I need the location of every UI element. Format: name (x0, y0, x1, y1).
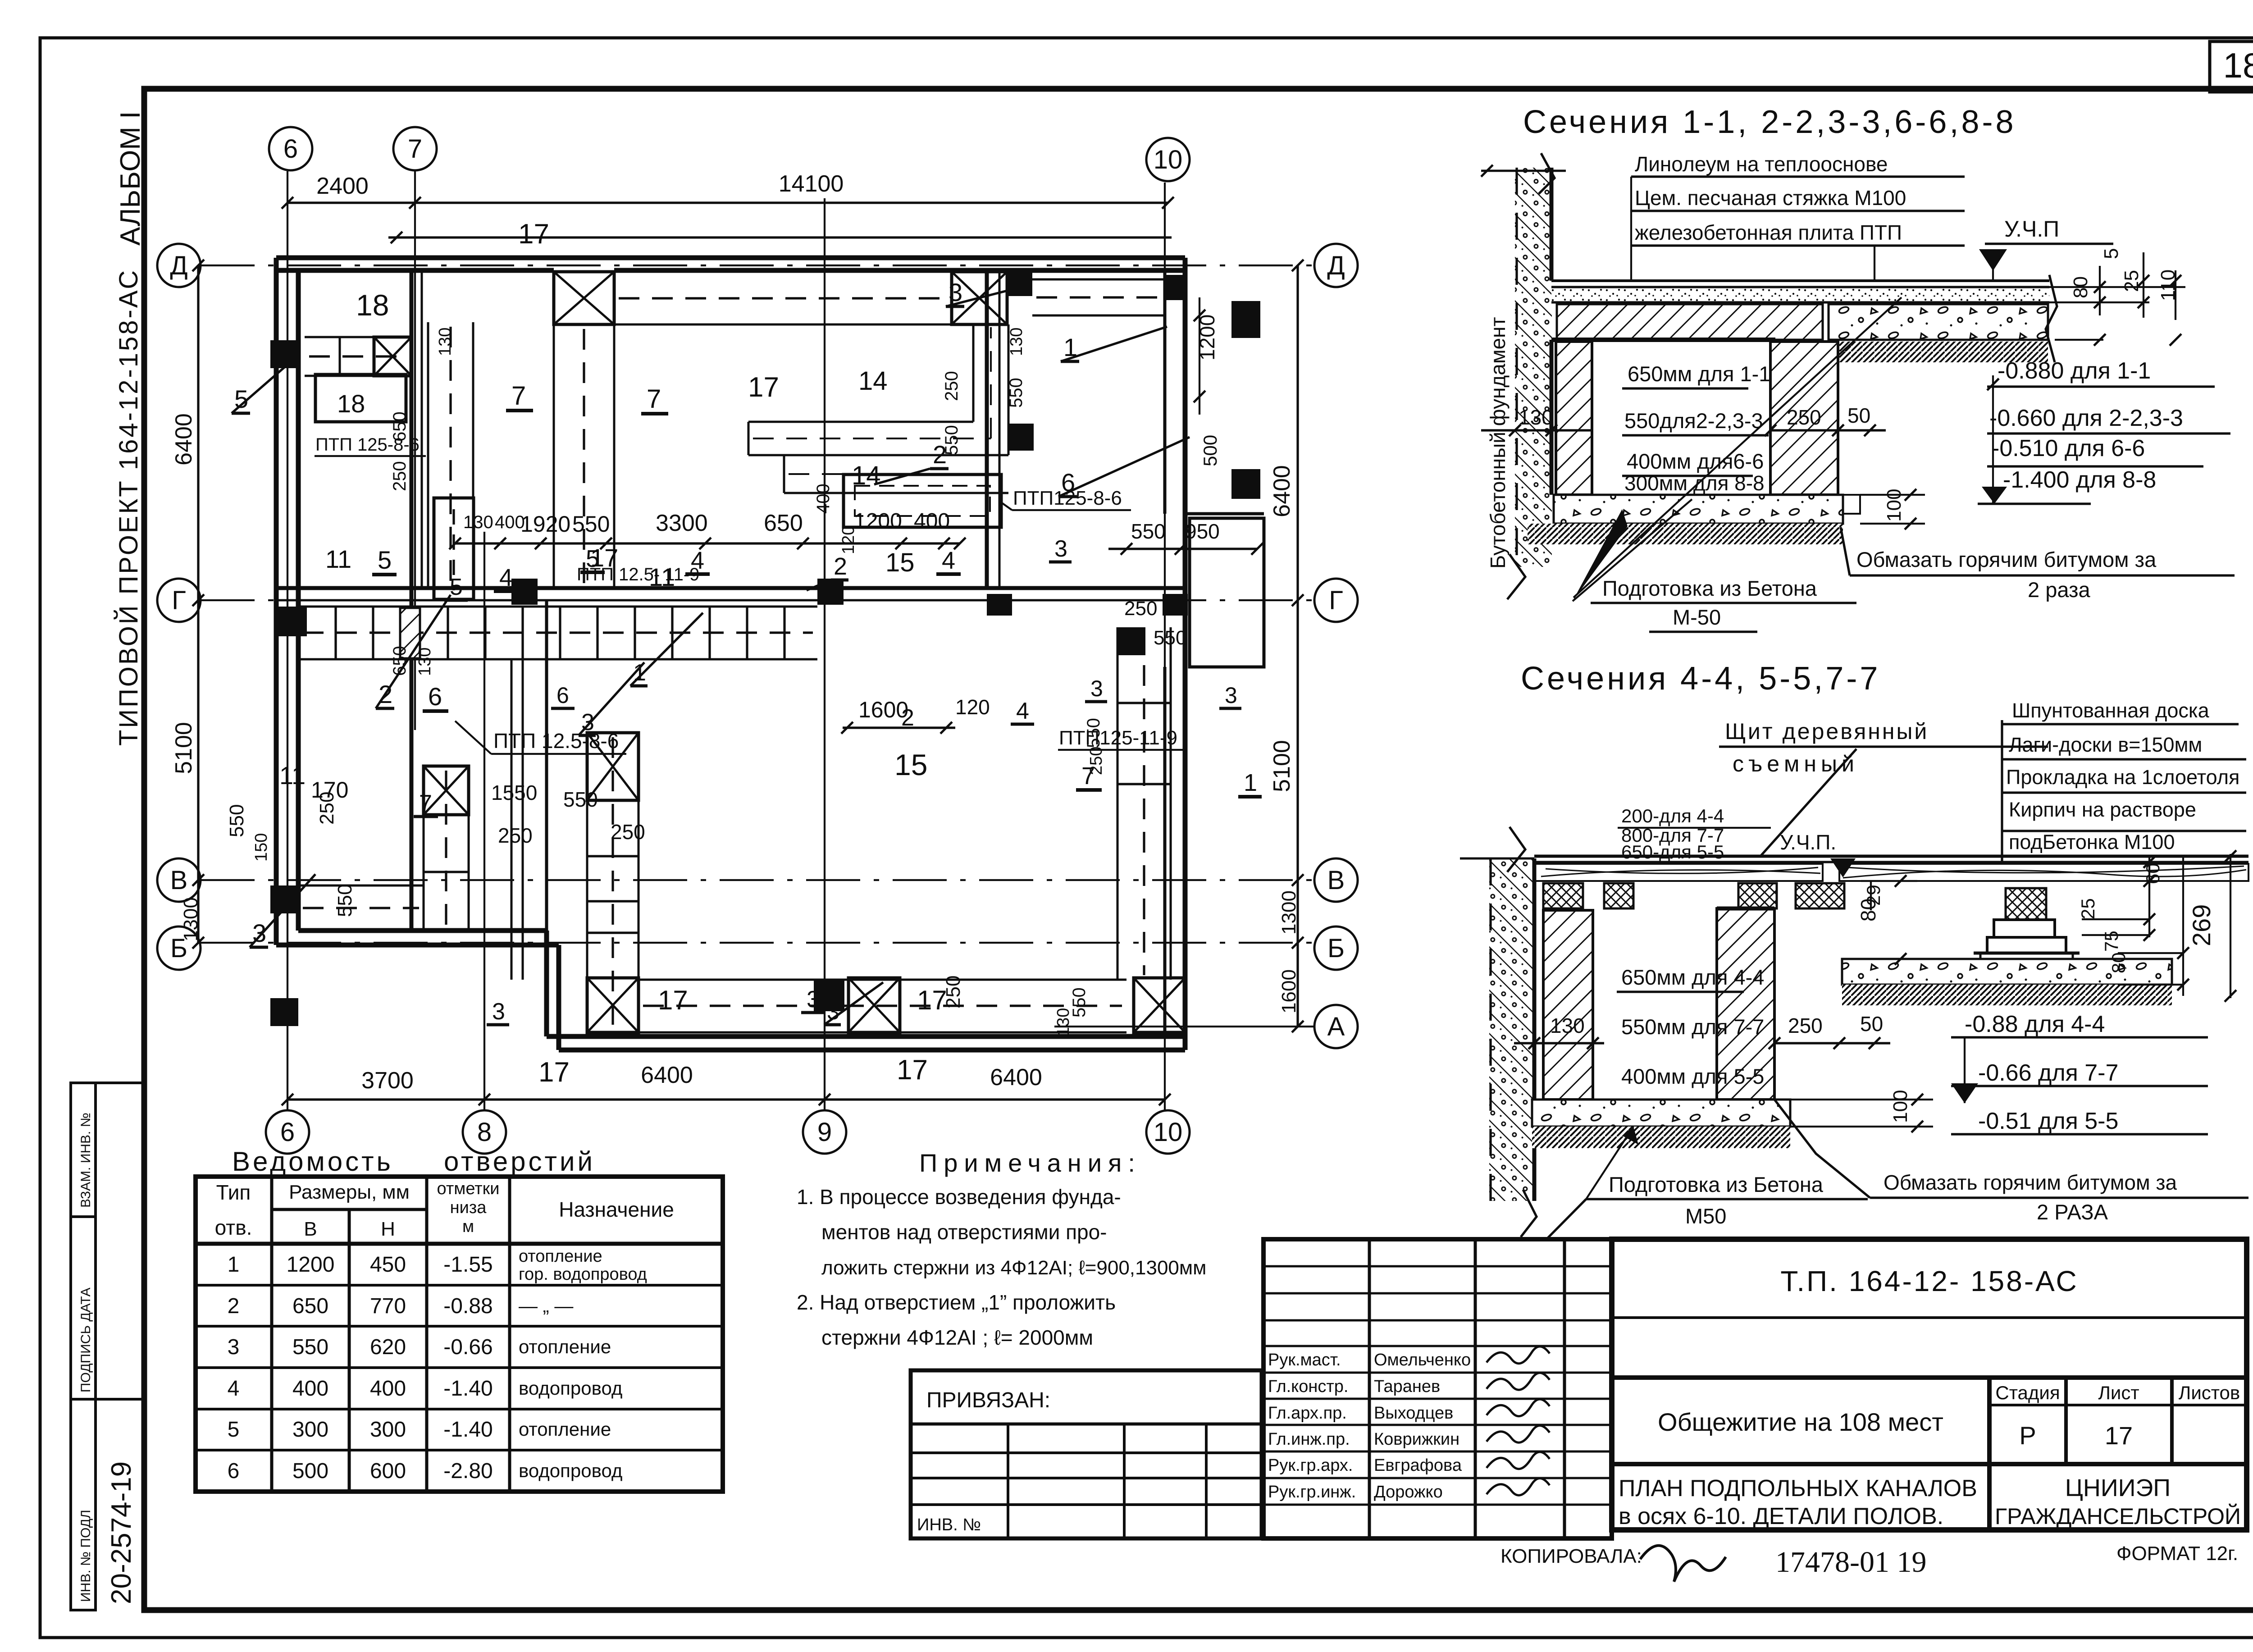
svg-text:25: 25 (2077, 898, 2098, 919)
L channel around room 4 (748, 421, 973, 423)
svg-text:1600: 1600 (1278, 969, 1300, 1013)
section 2 podbetonka band right (1842, 959, 2172, 985)
svg-text:ТИПОВОЙ ПРОЕКТ 164-12-158-АС: ТИПОВОЙ ПРОЕКТ 164-12-158-АС (114, 269, 143, 746)
svg-text:550: 550 (1006, 378, 1026, 408)
privyazan box (911, 1370, 1262, 1538)
svg-text:4: 4 (228, 1377, 240, 1401)
svg-text:ВЗАМ. ИНВ. №: ВЗАМ. ИНВ. № (78, 1113, 93, 1208)
svg-text:Назначение: Назначение (559, 1198, 674, 1221)
svg-text:250: 250 (942, 371, 962, 401)
svg-text:300: 300 (292, 1418, 328, 1442)
svg-text:950: 950 (1185, 520, 1220, 543)
svg-text:Г: Г (1329, 586, 1343, 615)
svg-text:низа: низа (450, 1198, 487, 1217)
svg-text:5: 5 (2100, 248, 2122, 259)
svg-text:ПТП125-11-9: ПТП125-11-9 (1059, 727, 1177, 749)
section 2 brick pier right (2006, 888, 2046, 920)
svg-text:Таранев: Таранев (1374, 1377, 1440, 1396)
outer wall bottom right part (559, 1048, 1185, 1053)
svg-text:У.Ч.П.: У.Ч.П. (1780, 831, 1836, 854)
svg-text:железобетонная плита ПТП: железобетонная плита ПТП (1635, 221, 1902, 244)
svg-text:-0.51 для 5-5: -0.51 для 5-5 (1978, 1108, 2118, 1134)
svg-text:550: 550 (334, 884, 356, 917)
section 1 foundation wall (1515, 168, 1552, 567)
svg-text:стержни 4Ф12АІ ; ℓ= 2000мм: стержни 4Ф12АІ ; ℓ= 2000мм (821, 1326, 1093, 1349)
channel top-left with crossed box (305, 336, 411, 338)
axis circle 10 bottom (1146, 1110, 1190, 1154)
svg-text:3: 3 (1090, 676, 1103, 701)
axis circle A right (1314, 1005, 1358, 1048)
svg-text:2 раза: 2 раза (2028, 578, 2090, 602)
svg-text:6: 6 (556, 683, 569, 708)
svg-text:250: 250 (1787, 406, 1821, 429)
svg-text:80: 80 (1856, 899, 1880, 922)
svg-text:гор. водопровод: гор. водопровод (519, 1265, 647, 1284)
svg-text:550: 550 (563, 788, 598, 811)
channel vertical V1 (427, 322, 429, 588)
plan axis line 9 (824, 198, 825, 1111)
axis circle 9 bottom (803, 1110, 846, 1154)
svg-text:17: 17 (518, 219, 549, 250)
channel vertical right x~2500 (1117, 627, 1119, 980)
svg-text:м: м (462, 1217, 474, 1236)
svg-text:1300: 1300 (1278, 890, 1300, 935)
svg-text:150: 150 (252, 833, 271, 862)
svg-text:ПРИВЯЗАН:: ПРИВЯЗАН: (926, 1388, 1050, 1412)
svg-text:5: 5 (228, 1418, 240, 1442)
right protruding bay (1190, 518, 1264, 667)
section 2 right label table (2001, 720, 2003, 862)
left margin stamp strip (71, 1083, 96, 1610)
svg-text:7: 7 (511, 381, 526, 411)
channel left-bottom vertical (423, 766, 425, 931)
outer wall left (274, 258, 279, 945)
svg-text:ПТП 12.5-8-6: ПТП 12.5-8-6 (493, 729, 619, 753)
svg-text:250: 250 (316, 792, 338, 825)
svg-text:17: 17 (2105, 1421, 2133, 1450)
svg-text:500: 500 (1199, 435, 1221, 466)
section 1 floor slab top lines (1551, 279, 2049, 282)
svg-text:17: 17 (658, 985, 688, 1015)
svg-text:18: 18 (337, 389, 365, 418)
section 1 dim 100 (1860, 494, 1925, 496)
svg-text:400: 400 (813, 484, 833, 514)
section 2 foundation wall (1489, 858, 1534, 1201)
svg-text:650: 650 (292, 1294, 328, 1318)
svg-text:550: 550 (1154, 627, 1186, 649)
svg-text:Гл.арх.пр.: Гл.арх.пр. (1268, 1404, 1347, 1423)
svg-text:Рук.гр.арх.: Рук.гр.арх. (1268, 1456, 1353, 1475)
svg-text:4: 4 (499, 564, 513, 591)
svg-text:-0.66 для 7-7: -0.66 для 7-7 (1978, 1060, 2118, 1086)
axis circle G right (1314, 579, 1358, 622)
svg-text:КОПИРОВАЛА:: КОПИРОВАЛА: (1500, 1545, 1642, 1567)
svg-text:100: 100 (1883, 489, 1905, 522)
svg-text:130: 130 (1054, 1008, 1073, 1036)
outer wall bottom left part along B (276, 943, 559, 948)
svg-text:550: 550 (1131, 520, 1166, 543)
svg-text:Коврижкин: Коврижкин (1374, 1430, 1459, 1449)
svg-text:650: 650 (390, 411, 410, 442)
svg-text:Размеры, мм: Размеры, мм (289, 1181, 410, 1203)
section 1 podbetonka concrete band (1829, 304, 2048, 340)
svg-text:Б: Б (1327, 934, 1345, 963)
svg-text:отверстий: отверстий (444, 1146, 595, 1177)
plan axis line 7 (414, 171, 416, 730)
svg-text:1: 1 (1244, 769, 1257, 796)
svg-text:Лаги-доски в=150мм: Лаги-доски в=150мм (2009, 733, 2202, 756)
svg-text:отметки: отметки (437, 1179, 500, 1198)
interior wall x~1213 G to bottom (545, 600, 548, 931)
svg-text:620: 620 (370, 1335, 406, 1359)
svg-text:5100: 5100 (1269, 740, 1295, 792)
svg-text:130: 130 (415, 648, 434, 676)
svg-text:Общежитие на 108 мест: Общежитие на 108 мест (1658, 1408, 1943, 1436)
svg-text:Р: Р (2019, 1421, 2036, 1450)
svg-text:ментов над отверстиями про-: ментов над отверстиями про- (821, 1220, 1107, 1244)
svg-text:в осях 6-10. ДЕТАЛИ ПОЛОВ.: в осях 6-10. ДЕТАЛИ ПОЛОВ. (1619, 1503, 1943, 1529)
svg-text:250: 250 (1788, 1014, 1823, 1037)
svg-text:550: 550 (942, 425, 962, 455)
svg-text:-0.880 для 1-1: -0.880 для 1-1 (1998, 358, 2151, 384)
svg-text:Рук.маст.: Рук.маст. (1268, 1351, 1341, 1369)
axis circle 8 bottom (463, 1110, 506, 1154)
svg-text:Бутобетонный фундамент: Бутобетонный фундамент (1486, 317, 1510, 569)
section 2 pit right wall (1717, 908, 1774, 1100)
svg-text:4: 4 (942, 547, 955, 574)
svg-text:3: 3 (492, 999, 505, 1025)
svg-text:18: 18 (356, 288, 389, 322)
svg-text:550: 550 (226, 804, 248, 837)
svg-text:550: 550 (292, 1335, 328, 1359)
svg-text:11: 11 (325, 545, 351, 573)
channel ring bottom horizontal (639, 979, 1126, 981)
schedule table (196, 1177, 723, 1492)
svg-text:15: 15 (894, 748, 927, 781)
svg-text:15: 15 (885, 548, 915, 577)
svg-text:Ведомость: Ведомость (232, 1146, 393, 1177)
svg-text:подБетонка М100: подБетонка М100 (2009, 831, 2175, 853)
svg-text:500: 500 (292, 1459, 328, 1483)
svg-text:-0.660 для 2-2,3-3: -0.660 для 2-2,3-3 (1989, 405, 2183, 431)
svg-text:В: В (304, 1218, 317, 1240)
bottom dimension line (287, 1098, 1165, 1100)
svg-text:Щит деревянный: Щит деревянный (1725, 719, 1929, 744)
plan axis line V (201, 879, 1314, 881)
section 1 cross leader (1573, 297, 1902, 598)
svg-text:отопление: отопление (519, 1336, 611, 1357)
svg-text:130: 130 (436, 328, 455, 356)
axis circle B left (157, 926, 201, 970)
ladder channel below G (298, 606, 817, 608)
svg-text:1920: 1920 (520, 511, 570, 537)
svg-text:Линолеум на теплооснове: Линолеум на теплооснове (1635, 152, 1888, 176)
section 2 wood blocks under floor (1543, 883, 1583, 908)
svg-text:Листов: Листов (2179, 1382, 2240, 1403)
svg-text:550мм для 7-7: 550мм для 7-7 (1621, 1015, 1764, 1039)
svg-text:Подготовка из Бетона: Подготовка из Бетона (1602, 576, 1817, 600)
svg-text:У.Ч.П: У.Ч.П (2004, 216, 2059, 242)
svg-text:400мм для6-6: 400мм для6-6 (1627, 449, 1764, 473)
svg-text:А: А (1327, 1012, 1345, 1041)
axis circle B right (1314, 926, 1358, 970)
svg-text:3700: 3700 (361, 1068, 414, 1094)
svg-text:Д: Д (1327, 251, 1345, 280)
channel vertical V2 below crossed box (553, 324, 555, 588)
svg-text:50: 50 (1847, 404, 1870, 427)
outer wall step vertical (556, 945, 561, 1050)
outer wall top along D (276, 256, 1185, 260)
svg-text:отопление: отопление (519, 1247, 602, 1266)
svg-text:14: 14 (858, 366, 888, 396)
svg-text:5: 5 (450, 574, 463, 600)
section 1 ground line top (1481, 170, 1566, 172)
svg-text:Г: Г (172, 586, 186, 615)
svg-text:650-для 5-5: 650-для 5-5 (1621, 841, 1724, 863)
svg-text:Тип: Тип (216, 1181, 251, 1204)
svg-text:600: 600 (370, 1459, 406, 1483)
svg-text:-2.80: -2.80 (443, 1459, 493, 1483)
svg-text:3: 3 (807, 986, 820, 1013)
interior wall x~920 (410, 270, 414, 931)
hatched block in ladder channel (400, 608, 420, 658)
interior wall along G (276, 586, 1185, 590)
svg-text:6400: 6400 (990, 1064, 1042, 1091)
svg-text:Т.П. 164-12- 158-АС: Т.П. 164-12- 158-АС (1780, 1265, 2078, 1297)
svg-text:650: 650 (764, 510, 803, 536)
svg-text:6: 6 (428, 682, 442, 711)
signature table (1263, 1239, 1612, 1538)
svg-text:14: 14 (852, 461, 881, 490)
svg-text:450: 450 (370, 1253, 406, 1277)
section 2 pit left wall (1543, 910, 1593, 1100)
svg-text:Рук.гр.инж.: Рук.гр.инж. (1268, 1483, 1356, 1501)
svg-text:17478-01 19: 17478-01 19 (1775, 1546, 1926, 1579)
axis circle D right (1314, 244, 1358, 287)
svg-text:80: 80 (2070, 276, 2092, 298)
svg-text:— „ —: — „ — (519, 1295, 573, 1316)
svg-text:-1.40: -1.40 (443, 1377, 493, 1401)
svg-text:3: 3 (1054, 536, 1067, 562)
svg-text:-1.55: -1.55 (443, 1253, 493, 1277)
svg-text:-0.510 для 6-6: -0.510 для 6-6 (1992, 435, 2145, 461)
svg-text:2: 2 (901, 705, 914, 731)
svg-text:17: 17 (538, 1057, 570, 1088)
svg-text:17: 17 (748, 372, 779, 403)
svg-text:М-50: М-50 (1673, 605, 1721, 629)
svg-text:Д: Д (170, 251, 187, 280)
svg-text:2400: 2400 (316, 173, 369, 199)
svg-text:550для2-2,3-3: 550для2-2,3-3 (1624, 409, 1763, 433)
svg-text:Гл.констр.: Гл.констр. (1268, 1377, 1348, 1396)
svg-text:Гл.инж.пр.: Гл.инж.пр. (1268, 1430, 1350, 1449)
top second dimension line (388, 236, 1172, 238)
svg-text:300: 300 (370, 1418, 406, 1442)
plan axis line A (1054, 1026, 1314, 1027)
svg-text:ИНВ. № ПОДЛ: ИНВ. № ПОДЛ (78, 1510, 93, 1602)
svg-text:110: 110 (2157, 269, 2179, 301)
section 1 slab PTP hatched (1557, 304, 1823, 340)
svg-text:80: 80 (2108, 952, 2129, 973)
svg-text:В: В (170, 866, 188, 895)
svg-text:Сечения 4-4, 5-5,7-7: Сечения 4-4, 5-5,7-7 (1521, 661, 1880, 697)
svg-text:ИНВ. №: ИНВ. № (917, 1515, 981, 1534)
svg-text:120: 120 (839, 526, 858, 554)
svg-text:2: 2 (834, 553, 847, 580)
svg-text:1300: 1300 (180, 897, 202, 941)
svg-text:Обмазать горячим битумом за: Обмазать горячим битумом за (1884, 1171, 2177, 1194)
channel vertical center x~1140 (511, 659, 513, 980)
svg-text:269: 269 (2187, 904, 2216, 946)
section 1 pit bottom slab (1554, 495, 1843, 524)
channel long under axis D (614, 271, 952, 273)
right dimension line (1296, 265, 1299, 1027)
svg-text:Сечения 1-1, 2-2,3-3,6-6,8-8: Сечения 1-1, 2-2,3-3,6-6,8-8 (1523, 104, 2016, 140)
svg-text:ЦНИИЭП: ЦНИИЭП (2065, 1474, 2171, 1501)
svg-text:Цем. песчаная стяжка М100: Цем. песчаная стяжка М100 (1635, 186, 1906, 210)
svg-text:650: 650 (390, 646, 410, 676)
svg-text:17: 17 (897, 1054, 928, 1086)
section 2 dim 100 (1790, 1099, 1933, 1100)
svg-text:400: 400 (914, 509, 950, 533)
axis circle 7 top (393, 127, 437, 170)
svg-text:250: 250 (498, 824, 533, 847)
svg-text:11: 11 (279, 761, 306, 789)
plan axis line B (201, 942, 1314, 944)
svg-text:Кирпич на растворе: Кирпич на растворе (2009, 798, 2196, 821)
svg-text:300мм для 8-8: 300мм для 8-8 (1624, 471, 1765, 495)
svg-text:4: 4 (691, 547, 704, 574)
svg-text:400мм для 5-5: 400мм для 5-5 (1621, 1064, 1764, 1088)
section 2 wood floor band (1534, 855, 2248, 858)
svg-text:14100: 14100 (779, 171, 844, 197)
svg-text:1. В процессе возведения фун: 1. В процессе возведения фунда- (797, 1185, 1121, 1209)
axis circle 6 bottom (266, 1110, 309, 1154)
black squares right wall (pilasters) (1231, 301, 1260, 338)
svg-text:25: 25 (2121, 270, 2143, 292)
svg-text:400: 400 (292, 1377, 328, 1401)
svg-text:7: 7 (647, 384, 661, 414)
svg-text:10: 10 (1154, 145, 1183, 174)
channel left-bottom horizontal (298, 885, 424, 887)
title block (1612, 1239, 2247, 1530)
svg-text:10: 10 (1154, 1118, 1183, 1147)
plan axis line 8 (483, 532, 485, 1111)
plan axis line D (201, 265, 1314, 266)
top dimension line (287, 201, 1168, 204)
svg-text:-0.88: -0.88 (443, 1294, 493, 1318)
svg-text:Омельченко: Омельченко (1374, 1351, 1471, 1369)
svg-text:8: 8 (477, 1118, 492, 1147)
svg-text:ФОРМАТ 12г.: ФОРМАТ 12г. (2116, 1542, 2238, 1565)
svg-text:120: 120 (955, 695, 990, 719)
svg-text:Лист: Лист (2098, 1382, 2139, 1403)
section 1 screed stipple band (1551, 289, 2049, 302)
svg-text:ГРАЖДАНСЕЛЬСТРОЙ: ГРАЖДАНСЕЛЬСТРОЙ (1995, 1503, 2241, 1529)
svg-text:18: 18 (2223, 46, 2253, 85)
svg-text:1550: 1550 (491, 781, 537, 804)
axis circle G left (157, 579, 201, 622)
svg-text:отопление: отопление (519, 1419, 611, 1440)
svg-text:2: 2 (228, 1294, 240, 1318)
svg-text:Н: Н (381, 1218, 395, 1240)
svg-text:650мм для 4-4: 650мм для 4-4 (1621, 965, 1764, 989)
svg-text:2. Над отверстием „1” проложи: 2. Над отверстием „1” проложить (797, 1291, 1116, 1314)
svg-text:4: 4 (1016, 698, 1029, 724)
svg-text:130: 130 (1550, 1014, 1585, 1037)
svg-text:-0.66: -0.66 (443, 1335, 493, 1359)
svg-text:-1.400 для 8-8: -1.400 для 8-8 (2003, 467, 2156, 493)
section 1 pit right wall (1770, 342, 1838, 495)
svg-text:АЛЬБОМ I: АЛЬБОМ I (115, 111, 146, 246)
svg-text:3: 3 (1225, 683, 1237, 708)
svg-text:Примечания:: Примечания: (919, 1149, 1141, 1177)
svg-text:1: 1 (228, 1253, 240, 1277)
svg-text:650мм для 1-1: 650мм для 1-1 (1628, 362, 1770, 386)
interior wall x~2190 (985, 270, 989, 588)
svg-text:7: 7 (408, 134, 422, 164)
axis circle D left (157, 244, 201, 287)
svg-text:5: 5 (378, 546, 392, 574)
svg-text:75: 75 (2101, 931, 2122, 952)
svg-text:3: 3 (228, 1335, 240, 1359)
svg-text:Прокладка на 1слоетоля: Прокладка на 1слоетоля (2006, 766, 2239, 789)
svg-text:250: 250 (611, 820, 645, 844)
axis circle V left (157, 858, 201, 902)
svg-text:2 РАЗА: 2 РАЗА (2037, 1200, 2108, 1224)
plan axis line 6 (287, 171, 288, 1111)
svg-text:водопровод: водопровод (519, 1378, 622, 1399)
svg-text:отв.: отв. (215, 1216, 252, 1239)
svg-text:-1.40: -1.40 (443, 1418, 493, 1442)
middle dimension row (455, 542, 960, 544)
svg-text:В: В (1327, 866, 1345, 895)
svg-text:водопровод: водопровод (519, 1460, 622, 1481)
svg-text:130: 130 (1519, 406, 1553, 429)
section 1 ground hatch under pit (1528, 524, 1843, 544)
plan axis line 10 (1164, 183, 1166, 1111)
svg-text:6: 6 (280, 1118, 295, 1147)
svg-text:250: 250 (1087, 747, 1106, 775)
section 2 top break (1507, 827, 1525, 872)
svg-text:250: 250 (390, 461, 410, 491)
section 1 pit left wall (1556, 342, 1592, 495)
svg-text:ПОДПИСЬ ДАТА: ПОДПИСЬ ДАТА (78, 1287, 93, 1392)
svg-text:Дорожко: Дорожко (1374, 1483, 1443, 1501)
svg-text:ПЛАН ПОДПОЛЬНЫХ КАНАЛОВ: ПЛАН ПОДПОЛЬНЫХ КАНАЛОВ (1619, 1475, 1977, 1501)
axis circle 10 top (1146, 138, 1190, 181)
svg-text:1200: 1200 (854, 509, 902, 533)
svg-text:Шпунтованная доска: Шпунтованная доска (2012, 699, 2210, 722)
axis circle 6 top (269, 127, 312, 170)
svg-text:50: 50 (1860, 1012, 1883, 1036)
axis circle V right (1314, 858, 1358, 902)
svg-text:20-2574-19: 20-2574-19 (106, 1461, 137, 1604)
svg-text:Обмазать горячим битумом за: Обмазать горячим битумом за (1856, 548, 2157, 571)
svg-text:9: 9 (817, 1118, 832, 1147)
channel ring bottom-center: left vertical (586, 733, 588, 1032)
svg-text:200-для 4-4: 200-для 4-4 (1621, 805, 1724, 826)
svg-text:770: 770 (370, 1294, 406, 1318)
black squares along G channel (277, 607, 307, 636)
outer wall right (1183, 258, 1188, 1050)
svg-text:3300: 3300 (656, 510, 708, 536)
section 1 right break (2046, 275, 2057, 362)
svg-text:400: 400 (370, 1377, 406, 1401)
svg-text:ложить стержни из 4Ф12АІ; ℓ=: ложить стержни из 4Ф12АІ; ℓ=900,1300мм (821, 1257, 1206, 1279)
cell box below channel A (315, 374, 406, 422)
svg-text:550: 550 (572, 511, 610, 537)
